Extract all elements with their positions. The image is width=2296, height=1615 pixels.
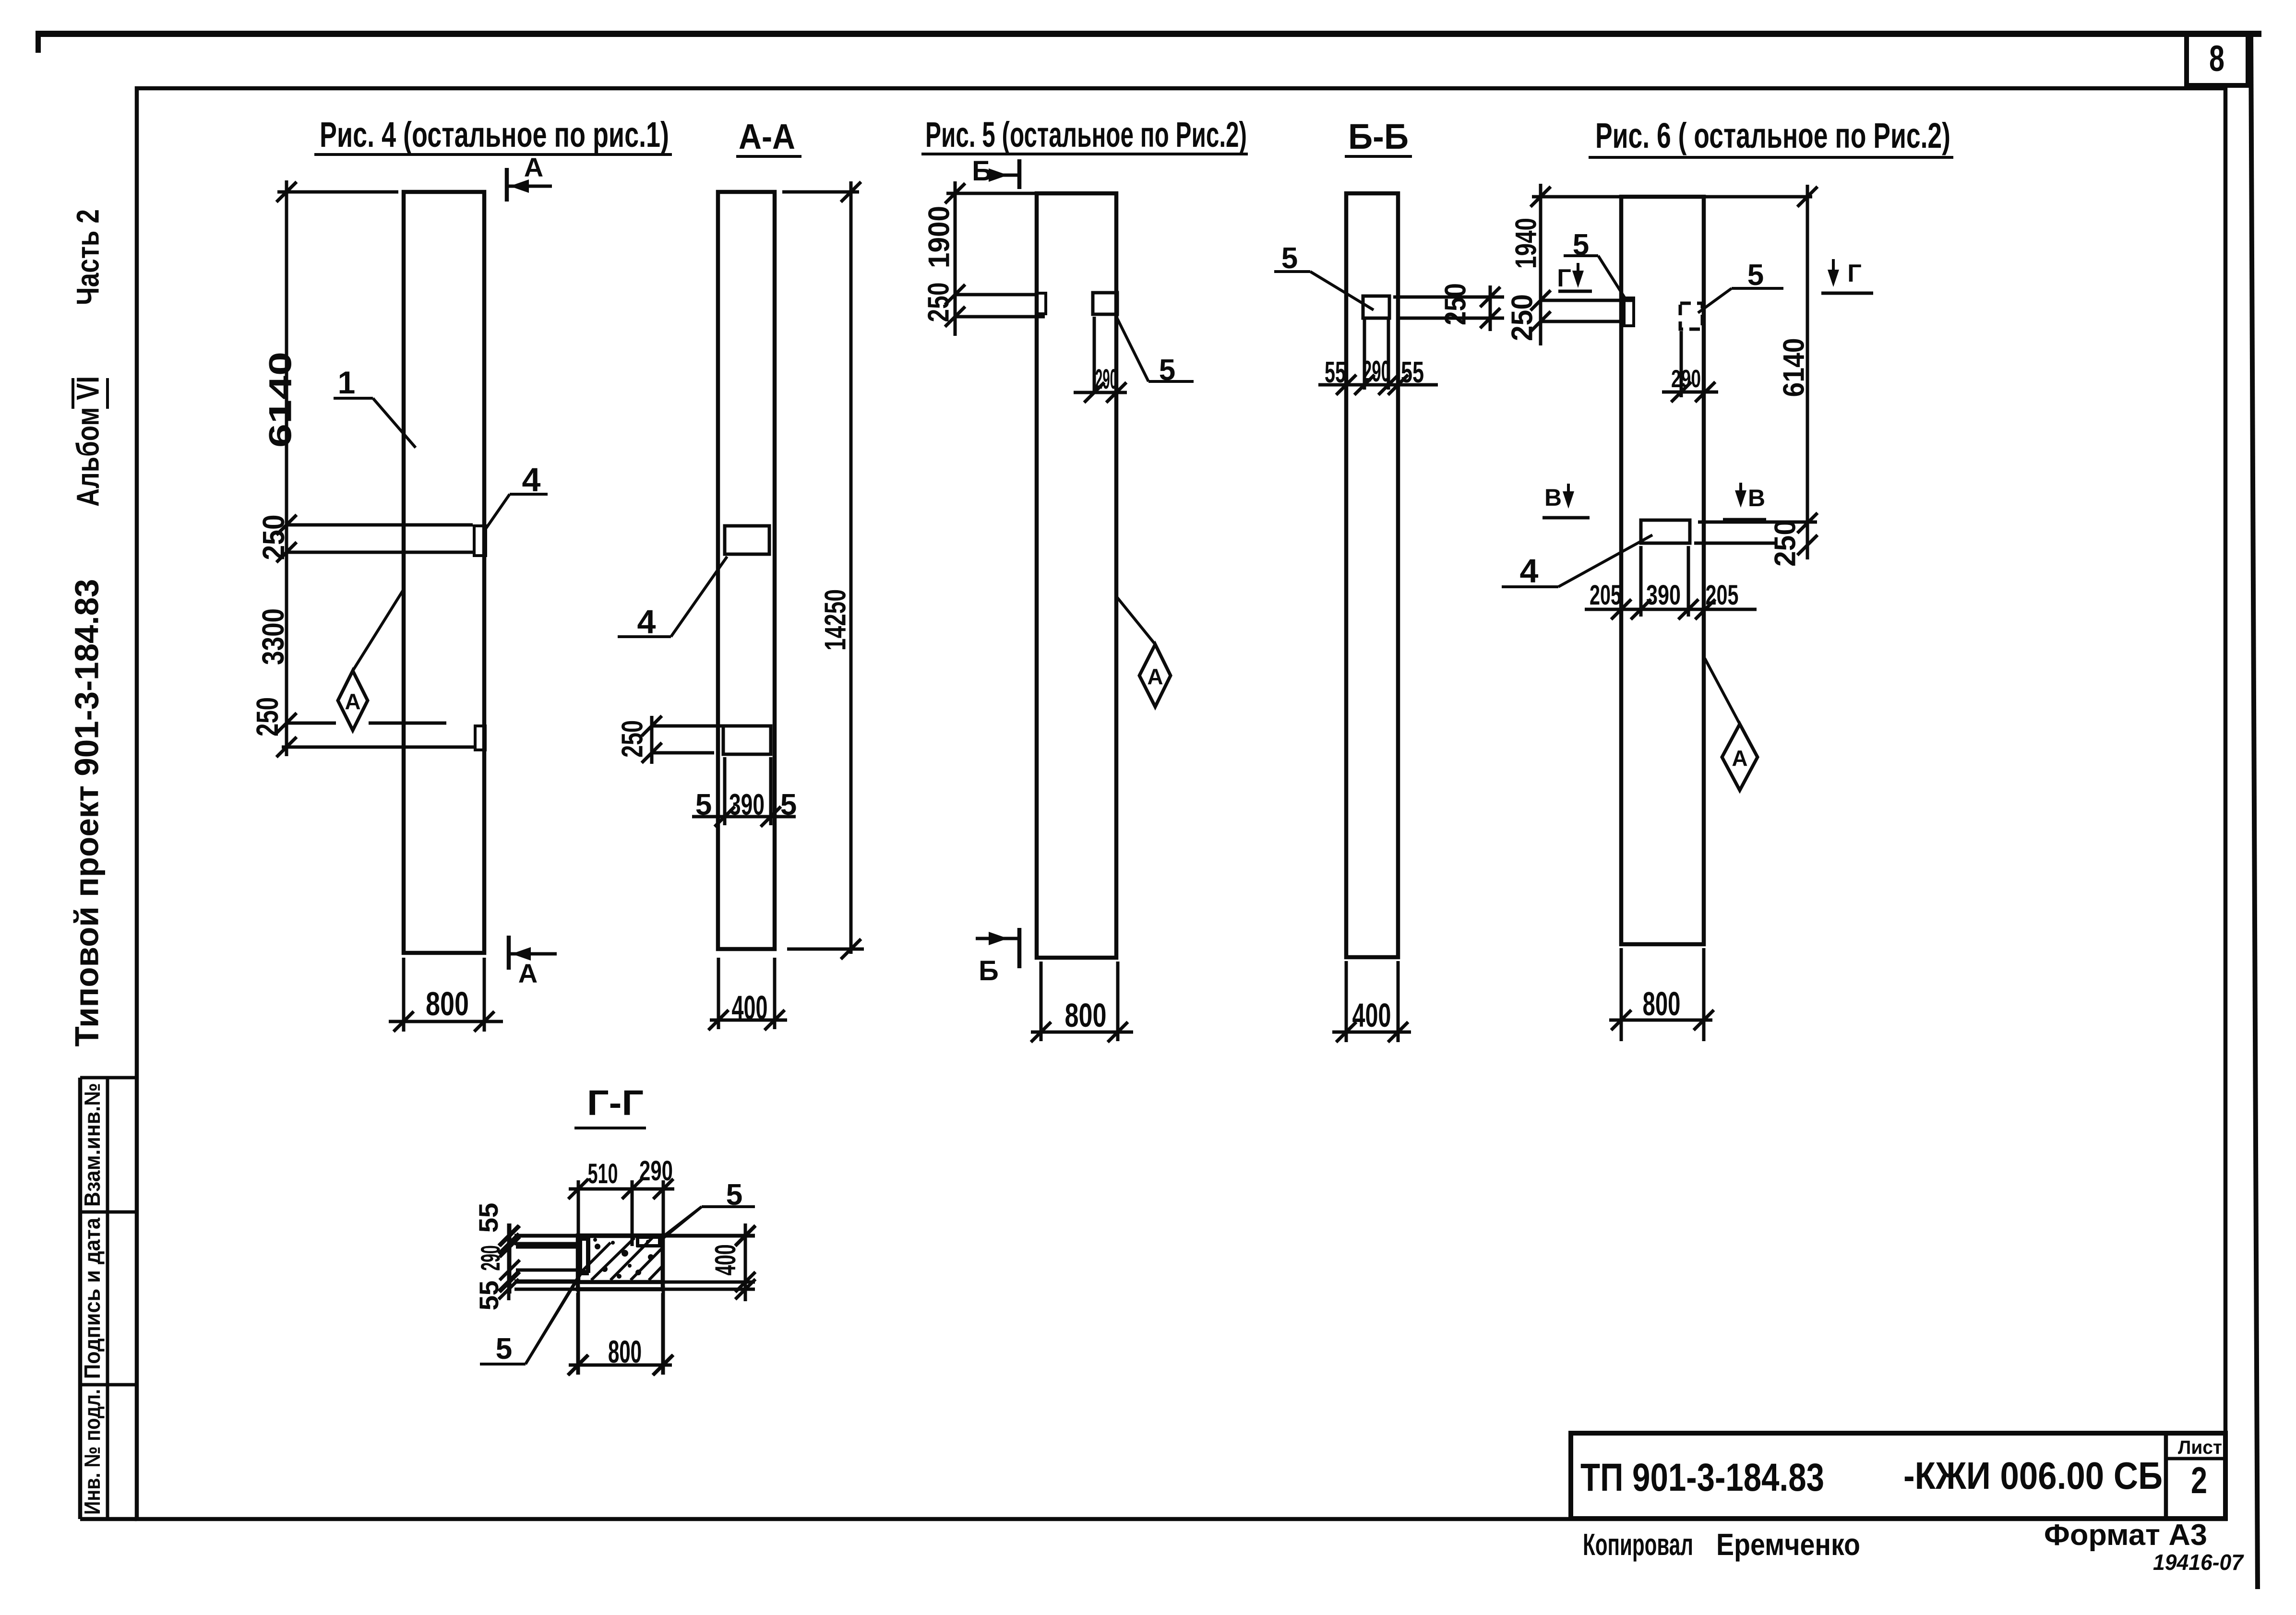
svg-text:1: 1 — [338, 365, 356, 400]
svg-text:Б-Б: Б-Б — [1348, 117, 1409, 156]
svg-text:290: 290 — [475, 1246, 505, 1271]
svg-text:250: 250 — [250, 697, 285, 736]
svg-text:390: 390 — [1646, 580, 1681, 611]
svg-text:400: 400 — [709, 1245, 741, 1276]
svg-text:290: 290 — [639, 1155, 673, 1187]
svg-text:55: 55 — [474, 1281, 504, 1310]
svg-text:А: А — [518, 958, 538, 988]
svg-text:Г: Г — [1557, 264, 1571, 292]
svg-text:А: А — [1732, 746, 1747, 771]
svg-text:55: 55 — [473, 1203, 503, 1233]
svg-text:8: 8 — [2209, 38, 2224, 79]
svg-text:5: 5 — [1281, 242, 1298, 275]
svg-text:1940: 1940 — [1509, 218, 1543, 269]
svg-text:290: 290 — [1363, 355, 1390, 388]
svg-text:55: 55 — [1325, 356, 1346, 389]
svg-text:А: А — [524, 152, 543, 182]
svg-text:55: 55 — [1401, 356, 1424, 389]
svg-text:800: 800 — [1065, 997, 1107, 1034]
svg-text:Типовой проект 901-3-184.83: Типовой проект 901-3-184.83 — [68, 579, 105, 1047]
svg-text:Рис. 5 (остальное по Рис.2): Рис. 5 (остальное по Рис.2) — [925, 115, 1247, 154]
svg-text:5: 5 — [695, 788, 712, 821]
svg-text:Формат А3: Формат А3 — [2044, 1519, 2207, 1552]
svg-text:250: 250 — [922, 283, 955, 322]
svg-text:19416-07: 19416-07 — [2153, 1550, 2244, 1575]
svg-text:390: 390 — [729, 788, 765, 821]
svg-text:5: 5 — [780, 788, 797, 821]
svg-text:-КЖИ 006.00 СБ: -КЖИ 006.00 СБ — [1903, 1454, 2163, 1497]
svg-text:ТП 901-3-184.83: ТП 901-3-184.83 — [1580, 1456, 1824, 1499]
svg-text:510: 510 — [588, 1158, 618, 1189]
svg-text:Копировал: Копировал — [1583, 1527, 1693, 1562]
svg-text:250: 250 — [616, 720, 649, 758]
svg-text:205: 205 — [1706, 580, 1739, 611]
svg-text:Рис. 6 ( остальное по Рис.2): Рис. 6 ( остальное по Рис.2) — [1595, 116, 1950, 155]
svg-text:6140: 6140 — [262, 352, 298, 448]
svg-text:4: 4 — [637, 603, 656, 641]
svg-text:800: 800 — [608, 1334, 642, 1369]
svg-text:А: А — [1147, 664, 1163, 689]
svg-text:5: 5 — [1747, 259, 1764, 292]
svg-text:Подпись и дата: Подпись и дата — [80, 1218, 105, 1379]
svg-text:Г-Г: Г-Г — [587, 1083, 644, 1123]
svg-text:Б: Б — [979, 955, 999, 986]
svg-text:4: 4 — [1520, 552, 1539, 590]
svg-text:2: 2 — [2191, 1459, 2207, 1501]
svg-text:А: А — [345, 689, 360, 714]
svg-text:Взам.инв.№: Взам.инв.№ — [80, 1083, 105, 1207]
svg-text:290: 290 — [1095, 364, 1117, 395]
svg-text:800: 800 — [1643, 985, 1681, 1022]
svg-text:Часть 2: Часть 2 — [70, 209, 105, 305]
svg-text:5: 5 — [496, 1332, 512, 1366]
svg-text:205: 205 — [1590, 580, 1621, 611]
svg-text:Альбом VI: Альбом VI — [70, 376, 105, 507]
svg-text:290: 290 — [1671, 365, 1701, 393]
svg-text:800: 800 — [426, 985, 469, 1022]
svg-text:1900: 1900 — [922, 206, 956, 268]
svg-text:3300: 3300 — [256, 608, 290, 665]
svg-text:250: 250 — [256, 515, 291, 560]
svg-text:400: 400 — [1352, 997, 1391, 1034]
svg-text:400: 400 — [732, 989, 768, 1026]
svg-text:250: 250 — [1769, 520, 1802, 567]
svg-text:6140: 6140 — [1777, 338, 1810, 397]
svg-text:Лист: Лист — [2178, 1437, 2222, 1458]
svg-text:В: В — [1748, 485, 1765, 511]
svg-text:Еремченко: Еремченко — [1716, 1527, 1860, 1562]
svg-text:В: В — [1544, 484, 1562, 511]
svg-text:Инв. № подл.: Инв. № подл. — [80, 1389, 105, 1515]
svg-text:А-А: А-А — [739, 117, 795, 156]
svg-text:14250: 14250 — [819, 589, 852, 651]
svg-text:Рис. 4 (остальное по рис.1): Рис. 4 (остальное по рис.1) — [320, 115, 669, 154]
svg-text:250: 250 — [1506, 294, 1539, 341]
svg-text:250: 250 — [1439, 283, 1472, 325]
svg-text:Г: Г — [1847, 260, 1861, 287]
